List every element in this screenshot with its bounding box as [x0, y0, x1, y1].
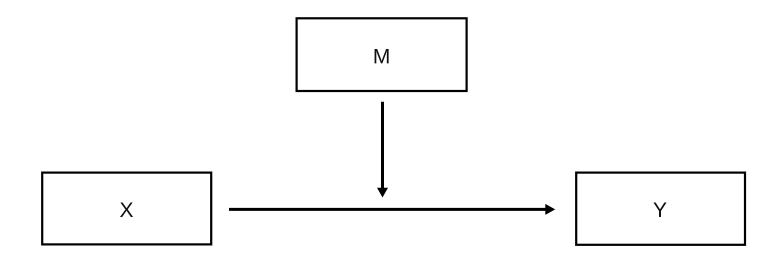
box M [297, 18, 467, 91]
label X [120, 203, 133, 217]
arrow M to path: shaft [381, 102, 384, 189]
label M [375, 49, 389, 63]
arrow X to Y: head [545, 204, 555, 215]
box Y [576, 173, 745, 245]
label Y [653, 203, 666, 217]
box X [42, 173, 211, 245]
arrow X to Y: shaft [229, 208, 546, 211]
arrow M to path: head [377, 188, 388, 198]
